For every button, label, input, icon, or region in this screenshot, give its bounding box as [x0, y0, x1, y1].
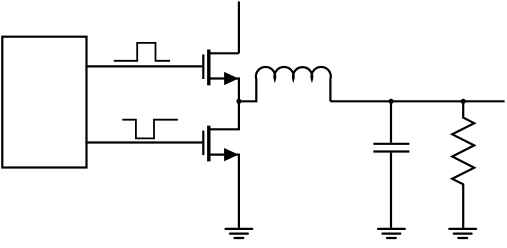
- ground symbol (resistor): [449, 229, 476, 238]
- inductor L1: [239, 67, 331, 101]
- supply wire (Q1 drain to Vin): [238, 2, 240, 54]
- capacitor C1 top lead: [390, 101, 392, 142]
- wire: box to low-side gate: [85, 141, 202, 143]
- driver box U1: [2, 37, 86, 168]
- capacitor C1 top plate: [373, 143, 409, 145]
- transistor Q2 source arrowhead: [224, 148, 239, 161]
- node: resistor junction dot: [461, 99, 466, 104]
- transistor Q1 channel bar: [207, 50, 210, 86]
- transistor Q2 drain connection up to switch node: [209, 101, 239, 129]
- transistor Q1 source connection with arrow: [209, 79, 239, 102]
- switch node junction dot: [236, 99, 241, 104]
- ground symbol (low-side source): [226, 229, 253, 238]
- resistor R1 (load): [452, 101, 474, 228]
- ground symbol (capacitor): [378, 229, 405, 238]
- transistor Q2 (low-side NMOS) gate bar: [202, 131, 204, 156]
- transistor Q1 (high-side NMOS) gate bar: [202, 55, 204, 80]
- wire: box to high-side gate: [85, 65, 202, 67]
- transistor Q1 drain connection: [209, 52, 239, 54]
- transistor Q2 source connection with arrow: [209, 155, 239, 228]
- transistor Q2 channel bar: [207, 126, 210, 162]
- low-side gate pulse waveform (inverted): [122, 120, 178, 139]
- capacitor C1 bottom plate: [373, 150, 409, 152]
- node: capacitor junction dot: [389, 99, 394, 104]
- high-side gate pulse waveform: [114, 43, 170, 61]
- output rail wire: [330, 100, 504, 102]
- capacitor C1 bottom lead: [390, 153, 392, 228]
- transistor Q1 source arrowhead: [224, 72, 239, 85]
